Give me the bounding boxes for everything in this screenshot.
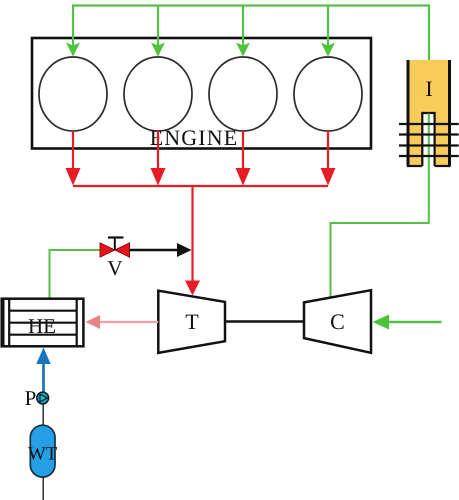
arrowhead: intake into cylinder 1 xyxy=(66,43,80,57)
arrowhead: pink into HE xyxy=(86,315,101,329)
arrowhead: intake into cylinder 3 xyxy=(236,43,250,57)
engine block xyxy=(32,38,371,149)
wire: red exhaust from cylinder 1 xyxy=(72,130,74,170)
shaft xyxy=(225,320,304,323)
wire: red exhaust from cylinder 3 xyxy=(242,130,244,170)
svg-text:C: C xyxy=(330,309,345,334)
intercooler I body xyxy=(408,60,450,166)
water tank WT xyxy=(30,425,55,477)
arrowhead: exhaust 4 xyxy=(321,168,336,186)
svg-text:P: P xyxy=(25,386,37,410)
wire: pink line turbine to HE xyxy=(99,321,158,323)
intercooler right wall xyxy=(448,60,451,166)
arrowhead: bypass junction xyxy=(177,243,192,257)
arrowhead: exhaust 3 xyxy=(236,168,251,186)
arrowhead: exhaust into turbine xyxy=(185,281,200,296)
arrowhead: intake into cylinder 4 xyxy=(321,43,335,57)
arrowhead: exhaust 1 xyxy=(66,168,81,186)
svg-text:ENGINE: ENGINE xyxy=(150,125,238,150)
intercooler left wall xyxy=(407,60,410,166)
intercooler bottom edges xyxy=(407,165,422,167)
wire: green drop to cylinder 4 xyxy=(327,6,329,56)
cylinder 3 xyxy=(209,57,277,131)
wire: black bypass line to exhaust drop xyxy=(130,249,179,252)
wire: blue coolant from pump to HE xyxy=(42,361,45,392)
wire: red exhaust manifold xyxy=(73,185,328,187)
arrowhead: intake into cylinder 2 xyxy=(151,43,165,57)
arrowhead: coolant into HE xyxy=(36,348,50,365)
pump P xyxy=(37,392,49,404)
arrowhead: exhaust 2 xyxy=(151,168,166,186)
arrowhead: air into compressor xyxy=(373,315,390,330)
wire: green drop to cylinder 2 xyxy=(157,6,159,56)
cylinder 4 xyxy=(294,57,362,131)
wire: green drop to cylinder 3 xyxy=(242,6,244,56)
wire: tank bottom line xyxy=(42,477,44,500)
svg-text:V: V xyxy=(107,256,122,280)
cylinder 1 xyxy=(39,57,107,131)
wire: red exhaust from cylinder 4 xyxy=(327,130,329,170)
intercooler channel xyxy=(422,113,434,166)
svg-text:HE: HE xyxy=(28,314,56,338)
wire: green branch from valve to HE xyxy=(50,250,101,299)
svg-text:T: T xyxy=(185,309,199,334)
intercooler fins xyxy=(399,123,459,125)
svg-text:WT: WT xyxy=(28,444,58,465)
valve stem xyxy=(114,238,116,251)
compressor C xyxy=(304,290,371,353)
wire: red exhaust from cylinder 2 xyxy=(157,130,159,170)
wire: green ambient air into compressor xyxy=(387,321,442,324)
wire: pump suction line xyxy=(42,404,44,427)
wire: green intake header xyxy=(73,6,429,61)
svg-text:I: I xyxy=(425,76,432,101)
turbine T xyxy=(158,291,225,353)
valve V xyxy=(100,243,115,257)
wire: green through intercooler to compressor xyxy=(331,114,429,300)
heat exchanger HE xyxy=(2,299,84,347)
cylinder 2 xyxy=(124,57,192,131)
wire: red drop to turbine xyxy=(191,186,193,282)
